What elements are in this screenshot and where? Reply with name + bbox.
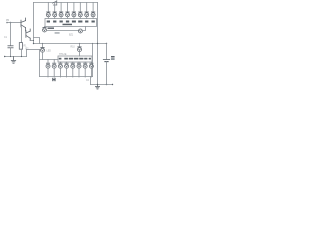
terminal T8 — [89, 62, 93, 77]
svg-text:R10: R10 — [71, 47, 76, 49]
wire drop left of bottom block — [39, 50, 41, 77]
LED D10 — [78, 44, 82, 57]
node junction — [33, 43, 34, 44]
svg-text:BZ1: BZ1 — [69, 34, 74, 36]
node dot emitter-rail — [33, 40, 34, 41]
switch S1 — [53, 1, 57, 5]
LED D8 — [91, 3, 95, 19]
node dot — [97, 84, 98, 85]
svg-text:PR: PR — [6, 20, 10, 22]
terminal T6 — [77, 62, 81, 77]
node dot — [97, 43, 98, 44]
wire far right rail — [97, 3, 99, 85]
wire probe to Q1 base — [7, 22, 21, 24]
terminal T1 — [46, 60, 50, 78]
terminal T2 — [52, 60, 56, 78]
IC1 pin labels — [47, 21, 95, 26]
transistor Q2 — [26, 29, 30, 41]
resistor R2 — [26, 49, 30, 57]
wire stub jog — [34, 38, 40, 44]
node dot left — [4, 56, 5, 57]
label P1 — [6, 20, 10, 22]
svg-text:LED: LED — [47, 51, 52, 53]
LED D3 — [59, 3, 63, 19]
node dot — [21, 56, 22, 57]
buzzer BZ1 — [78, 29, 82, 33]
probe terminal P2 — [10, 22, 12, 24]
node dot — [106, 84, 107, 85]
wire R2 to drop — [27, 49, 40, 51]
wire ground bus — [91, 84, 113, 86]
LED D5 — [72, 3, 76, 19]
svg-text:C1: C1 — [4, 37, 8, 39]
node junction — [92, 43, 93, 44]
wire left column — [10, 23, 12, 46]
battery BT1 — [103, 44, 109, 85]
wire Q2 emitter to rail — [30, 40, 33, 42]
wire ground rail left block — [5, 56, 27, 58]
label D9 — [47, 51, 52, 53]
wire middle long — [34, 43, 107, 45]
probe terminal P1 — [6, 22, 8, 24]
LED D1 — [46, 3, 50, 19]
terminal T4 — [65, 62, 69, 77]
node dot — [10, 56, 11, 57]
wire left rail — [33, 3, 35, 44]
label GND — [52, 78, 55, 81]
wire drop to ground bus — [90, 77, 92, 85]
ground — [11, 57, 15, 64]
LED D9 — [41, 44, 45, 60]
terminal T3 — [58, 62, 62, 77]
label BZ1 — [69, 34, 74, 36]
LED D2 — [53, 3, 57, 19]
wire buzzer to IC1 — [82, 27, 85, 31]
IC2 pin labels — [59, 58, 91, 60]
node junction — [79, 43, 80, 44]
wire top supply rail — [34, 2, 98, 4]
wire C1 to ground rail — [10, 48, 12, 57]
IC IC1 body — [45, 19, 97, 27]
label near node A — [48, 27, 60, 33]
transistor Q1 — [21, 18, 26, 31]
terminal T7 — [83, 62, 87, 77]
wire pin lead — [44, 26, 46, 29]
label C1 — [4, 37, 8, 39]
label IC2 — [59, 53, 67, 56]
capacitor C1 — [8, 46, 13, 48]
LED D6 — [78, 3, 82, 19]
label 9V — [111, 56, 115, 60]
resistor R1 — [19, 27, 27, 57]
LED D4 — [66, 3, 70, 19]
label D10 — [71, 47, 76, 49]
LED D7 — [85, 3, 89, 19]
node dot — [106, 43, 107, 44]
wire right drop — [92, 44, 94, 77]
terminal T5 — [71, 62, 75, 77]
svg-text:R1: R1 — [24, 46, 28, 48]
svg-text:C2: C2 — [86, 80, 90, 82]
ground bottom — [95, 85, 99, 90]
node terminal — [112, 84, 113, 85]
wire bottom row feed — [40, 59, 59, 61]
label C2 — [86, 80, 90, 82]
wire mid row — [47, 30, 79, 32]
node junction — [42, 43, 43, 44]
IC U2 body — [58, 56, 92, 62]
svg-text:HT12E: HT12E — [59, 53, 67, 56]
wire bottom rail — [40, 76, 93, 78]
node dot Q1-Q2 — [25, 30, 26, 31]
node A terminal circle — [43, 28, 47, 32]
